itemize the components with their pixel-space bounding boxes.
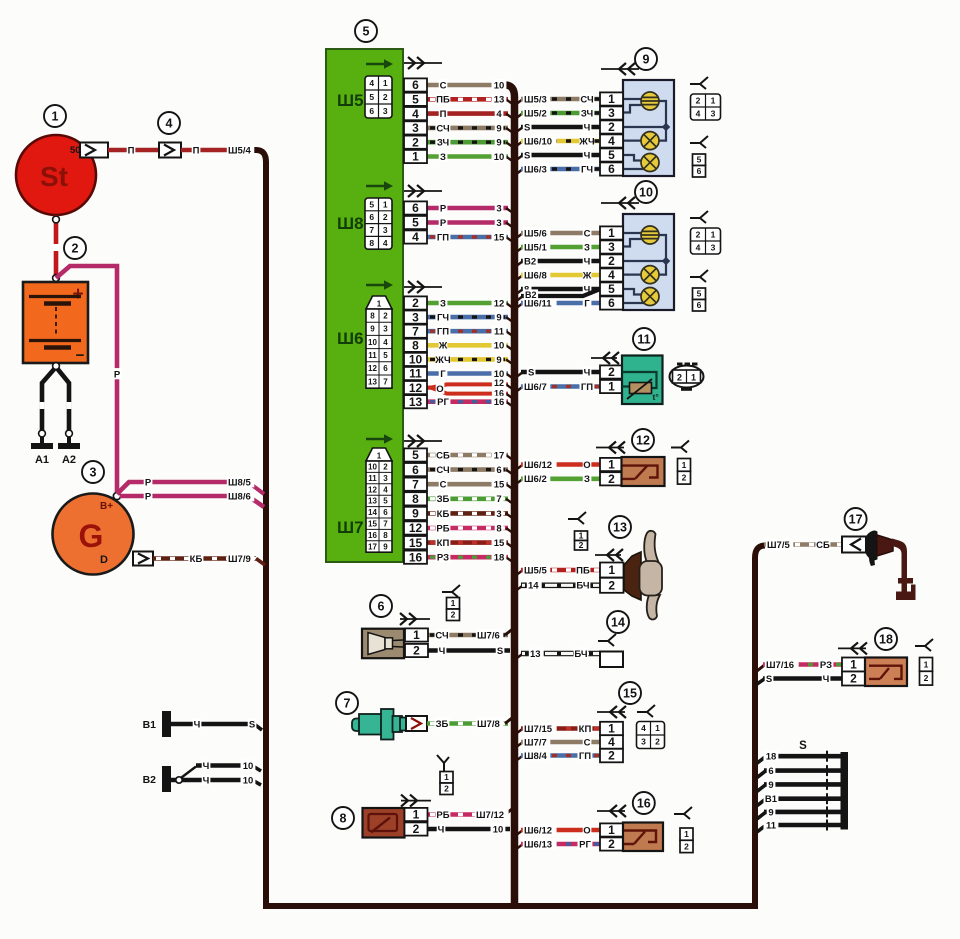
svg-text:3: 3: [496, 203, 501, 214]
svg-text:4: 4: [696, 109, 701, 119]
pin 9/1: [600, 92, 623, 106]
svg-text:1: 1: [691, 373, 696, 383]
svg-text:8: 8: [496, 523, 501, 534]
svg-text:С: С: [440, 480, 447, 491]
wire РБ 8 pin 1 to trunk Ш7/12: [427, 809, 512, 821]
svg-text:10: 10: [494, 341, 505, 352]
svg-text:1: 1: [451, 598, 456, 608]
svg-text:2: 2: [696, 96, 701, 106]
pin Ш6/12: [404, 381, 427, 395]
svg-text:Ш7/8: Ш7/8: [477, 719, 500, 730]
label 6 circled: [370, 595, 392, 617]
component 6 speaker body: [362, 629, 404, 659]
wire С Ш5/6 from trunk to 10 pin 1: [515, 227, 600, 239]
arrow 12 harness direction: [596, 442, 625, 454]
svg-text:П: П: [440, 109, 447, 120]
svg-text:4: 4: [608, 134, 615, 148]
pin layout Ш8: [365, 198, 392, 249]
svg-text:13: 13: [530, 649, 541, 660]
pin 18/2: [842, 672, 865, 686]
svg-text:ЗБ: ЗБ: [437, 494, 450, 505]
svg-text:Р: Р: [440, 218, 447, 229]
svg-text:ГП: ГП: [579, 751, 591, 762]
svg-text:5: 5: [383, 351, 388, 360]
wire Р Ш8 pin 5 to trunk: [427, 217, 513, 229]
svg-text:4: 4: [412, 230, 419, 244]
wire ГП Ш6/7 from trunk to 11 pin 1: [515, 381, 600, 393]
svg-text:С: С: [440, 80, 447, 91]
wire З Ш6 pin 2 to trunk: [427, 297, 513, 309]
ground A2: [58, 443, 80, 466]
label 10 circled: [635, 181, 657, 203]
svg-text:4: 4: [369, 78, 374, 88]
pin 8/2: [405, 822, 428, 836]
svg-text:15: 15: [368, 520, 377, 529]
svg-text:14: 14: [611, 616, 625, 630]
svg-text:1: 1: [444, 772, 449, 782]
svg-text:10: 10: [409, 353, 423, 367]
svg-text:6: 6: [697, 300, 702, 310]
fork 14: [598, 634, 616, 646]
wire Ч 6 pin 2 to trunk S: [427, 645, 510, 657]
wire СБ Ш7 pin 5 to trunk: [427, 449, 513, 461]
label Ш5: [337, 91, 364, 110]
pin Ш8/5: [404, 216, 427, 230]
svg-text:2: 2: [444, 784, 449, 794]
pin 9/5: [600, 148, 623, 162]
svg-text:t°: t°: [653, 392, 660, 402]
wire О Ш6/12 from trunk to 12 pin 1: [515, 459, 600, 471]
wire СЧ Ш5 pin 3 to trunk: [427, 122, 513, 134]
pin Ш5/2: [404, 135, 427, 149]
svg-text:Ш6: Ш6: [337, 329, 364, 348]
svg-text:1: 1: [608, 458, 615, 472]
pin 12/2: [600, 472, 623, 486]
svg-text:КБ: КБ: [190, 554, 203, 565]
svg-text:12: 12: [409, 521, 423, 535]
arrow Ш7 orientation (green): [366, 434, 393, 444]
pin Ш7/8: [404, 492, 427, 506]
svg-text:16: 16: [637, 797, 651, 811]
component 17 horn: [866, 531, 916, 600]
label 11 circled: [633, 328, 655, 350]
svg-text:Ч: Ч: [584, 367, 591, 378]
svg-text:Ш6/7: Ш6/7: [524, 382, 547, 393]
svg-text:Р: Р: [145, 477, 152, 488]
wire ЗЧ Ш5 pin 2 to trunk: [427, 136, 513, 148]
wire З Ш6/2 from trunk to 12 pin 2: [515, 473, 600, 485]
arrow Ш7 harness direction: [404, 435, 442, 447]
svg-text:1: 1: [413, 808, 420, 822]
svg-text:8: 8: [370, 311, 375, 320]
svg-text:12: 12: [494, 378, 504, 388]
arrow Ш6 orientation (green): [366, 280, 393, 290]
lamp 10 tail/stop two-filament: [641, 226, 659, 244]
svg-text:1: 1: [608, 823, 615, 837]
pin layout Ш6: [366, 296, 392, 388]
pin 13/2: [600, 578, 624, 593]
resistor t inside sensor 11: [627, 379, 659, 402]
svg-text:S: S: [249, 719, 255, 730]
fork 15: [637, 705, 655, 717]
wire З Ш5/1 from trunk to 10 pin 3: [515, 241, 600, 253]
svg-text:S: S: [497, 646, 503, 657]
wire ЖЧ Ш6 pin 10 to trunk: [427, 354, 513, 366]
pin layout 12: [678, 459, 691, 485]
wire ПБ Ш5/5 from trunk to 13 pin 1: [515, 564, 600, 576]
wire Ч S from trunk to 11 pin 2: [515, 366, 600, 378]
svg-text:Ш6/3: Ш6/3: [524, 164, 547, 175]
svg-text:2: 2: [383, 463, 388, 472]
arrow Ш6 harness direction: [404, 281, 442, 293]
svg-text:В1: В1: [765, 794, 778, 805]
svg-text:15: 15: [494, 232, 505, 243]
svg-text:П: П: [193, 145, 200, 156]
svg-text:4: 4: [696, 243, 701, 253]
label 14 circled: [607, 611, 629, 633]
svg-text:15: 15: [409, 536, 423, 550]
svg-text:7: 7: [412, 477, 419, 491]
svg-text:2: 2: [696, 230, 701, 240]
pin layout 8: [440, 772, 453, 795]
svg-text:12: 12: [494, 298, 505, 309]
svg-text:6: 6: [768, 766, 773, 777]
svg-text:18: 18: [494, 553, 505, 564]
svg-text:13: 13: [409, 395, 423, 409]
wire О Ш6/12 from trunk to 16 pin 1: [515, 824, 600, 836]
svg-text:2: 2: [383, 212, 388, 222]
svg-text:О: О: [583, 825, 590, 836]
svg-text:3: 3: [496, 509, 501, 520]
svg-text:Ш7/9: Ш7/9: [228, 554, 251, 565]
svg-text:11: 11: [494, 327, 505, 338]
wire КП Ш7 pin 15 to trunk: [427, 537, 513, 549]
wire СЧ Ш5/3 from trunk to 9 pin 1: [515, 93, 600, 105]
component 16 switch body: [623, 823, 663, 852]
svg-text:7: 7: [383, 520, 388, 529]
svg-text:9: 9: [496, 138, 501, 149]
svg-text:Ч: Ч: [584, 122, 591, 133]
switch arm on В2: [176, 767, 196, 784]
svg-text:10: 10: [243, 761, 254, 772]
component 5 mounting block (green): [326, 49, 403, 562]
svg-text:3: 3: [412, 121, 419, 135]
component 18 switch body: [865, 658, 907, 687]
svg-text:3: 3: [90, 466, 97, 480]
svg-text:5: 5: [383, 497, 388, 506]
svg-text:Ш7: Ш7: [337, 518, 364, 537]
pin Ш8/4: [404, 230, 427, 244]
pin 15/4: [600, 735, 623, 749]
wire right harness vertical: [755, 546, 765, 907]
svg-text:3: 3: [711, 243, 716, 253]
svg-text:1: 1: [52, 110, 59, 124]
svg-text:2: 2: [413, 822, 420, 836]
svg-text:Ш7/16: Ш7/16: [766, 660, 794, 671]
label 4 circled: [158, 112, 180, 134]
svg-text:Ш7/7: Ш7/7: [524, 737, 547, 748]
svg-text:4: 4: [641, 723, 646, 733]
svg-text:2: 2: [608, 254, 615, 268]
svg-text:8: 8: [412, 492, 419, 506]
svg-text:Ж: Ж: [438, 341, 448, 352]
wire main harness left vertical: [253, 150, 266, 906]
pin layout 18: [920, 658, 933, 686]
wire ГП Ш6 pin 7 to trunk: [427, 325, 513, 337]
wire Ж Ш6 pin 8 to trunk: [427, 339, 513, 351]
wire Ч В2 merge into 10 pin 5: [515, 289, 599, 302]
fork 9 lower: [690, 136, 708, 148]
wire ЗБ Ш7 pin 8 to trunk: [427, 493, 513, 505]
pin layout 13: [575, 531, 588, 551]
svg-text:6: 6: [383, 364, 388, 373]
svg-text:Ш6/12: Ш6/12: [524, 825, 552, 836]
connector at generator terminal D: [133, 552, 153, 566]
svg-text:Ч: Ч: [203, 761, 210, 772]
wire main trunk central vertical: [505, 85, 515, 906]
wire ЗЧ Ш5/2 from trunk to 9 pin 3: [515, 107, 600, 119]
pin 11/1: [600, 380, 623, 394]
pin 10/2: [600, 254, 623, 268]
label 9 circled: [635, 48, 657, 70]
svg-text:S: S: [524, 122, 530, 133]
fork 16: [674, 807, 692, 819]
svg-text:СБ: СБ: [816, 540, 830, 551]
svg-text:З: З: [440, 298, 446, 309]
wire П Ш5 pin 4 to trunk: [427, 108, 513, 120]
svg-text:6: 6: [496, 465, 501, 476]
pin 10/4: [600, 268, 623, 282]
svg-text:Ш6/10: Ш6/10: [524, 136, 552, 147]
wire starter to battery: [53, 215, 60, 282]
svg-text:З: З: [440, 152, 446, 163]
svg-text:ГЧ: ГЧ: [437, 313, 449, 324]
wire ЖЧ Ш6/10 from trunk to 9 pin 4: [515, 135, 600, 147]
terminal В1: [143, 711, 171, 737]
wire Ч В2 from trunk to 10 pin 2: [515, 255, 600, 267]
arrow Ш5 harness direction: [404, 57, 442, 69]
svg-text:Ш5/1: Ш5/1: [524, 242, 547, 253]
connector pad 11 oval: [670, 363, 704, 391]
svg-text:Ш7/6: Ш7/6: [477, 630, 500, 641]
svg-text:О: О: [583, 460, 590, 471]
pin 6/2: [405, 644, 428, 658]
svg-text:О: О: [436, 384, 443, 395]
svg-text:9: 9: [768, 807, 773, 818]
svg-text:СЧ: СЧ: [435, 630, 449, 641]
wire Ч 8 pin 2 to trunk 10: [427, 823, 510, 835]
wire С Ш5 pin 6 to trunk: [427, 79, 506, 91]
svg-text:3: 3: [608, 240, 615, 254]
pin 10/5: [600, 282, 623, 296]
svg-text:Ш8: Ш8: [337, 214, 364, 233]
svg-text:Р: Р: [145, 491, 152, 502]
wire Ж Ш6/8 from trunk to 10 pin 4: [515, 269, 600, 281]
wire КБ Ш7 pin 9 to trunk: [427, 508, 513, 520]
svg-text:ЖЧ: ЖЧ: [434, 355, 451, 366]
pin Ш7/12: [404, 521, 427, 535]
svg-text:9: 9: [496, 355, 501, 366]
svg-text:5: 5: [363, 25, 370, 39]
wire Р Ш8 pin 6 to trunk: [427, 202, 513, 214]
pin Ш7/7: [404, 477, 427, 491]
fork 6: [442, 585, 460, 597]
arrow 15 harness direction: [597, 706, 626, 718]
svg-text:1: 1: [655, 723, 660, 733]
svg-text:2: 2: [608, 365, 615, 379]
svg-text:ГП: ГП: [581, 382, 593, 393]
pin Ш5/4: [404, 107, 427, 121]
svg-text:Ш7/15: Ш7/15: [524, 724, 553, 735]
ground A1: [31, 443, 53, 466]
wire С Ш7 pin 7 to trunk: [427, 478, 513, 490]
wire РЗ Ш7 pin 16 to trunk: [427, 551, 513, 563]
svg-text:РЗ: РЗ: [437, 553, 449, 564]
svg-text:РБ: РБ: [436, 810, 449, 821]
svg-text:6: 6: [608, 296, 615, 310]
arrow Ш8 orientation (green): [366, 181, 393, 191]
pin Ш7/16: [404, 550, 427, 564]
svg-text:Г: Г: [584, 298, 590, 309]
svg-text:+: +: [72, 284, 83, 305]
wire Ч S-bus 18: [757, 750, 843, 763]
svg-text:Ч: Ч: [439, 646, 446, 657]
fork 13: [568, 512, 586, 524]
svg-text:РЗ: РЗ: [820, 660, 832, 671]
svg-text:10: 10: [639, 186, 653, 200]
pin Ш6/2: [404, 296, 427, 310]
svg-text:18: 18: [879, 633, 893, 647]
wire РЗ Ш7/16 from right harness to 18 pin 1: [757, 659, 842, 671]
svg-text:2: 2: [677, 373, 682, 383]
svg-text:1: 1: [383, 78, 388, 88]
svg-text:S: S: [766, 674, 772, 685]
svg-text:St: St: [40, 161, 68, 192]
svg-text:6: 6: [383, 508, 388, 517]
wire О Ш6 pin 12 split to trunk (12 and 16): [427, 377, 513, 399]
svg-text:14: 14: [528, 581, 539, 592]
pin Ш6/7: [404, 324, 427, 338]
svg-text:11: 11: [637, 333, 650, 347]
component 4 connector: [159, 143, 181, 158]
svg-text:7: 7: [369, 225, 374, 235]
svg-text:10: 10: [368, 463, 377, 472]
svg-text:3: 3: [383, 106, 388, 116]
svg-text:2: 2: [850, 672, 857, 686]
svg-text:8: 8: [412, 339, 419, 353]
pin layout Ш5: [365, 76, 392, 118]
wire battery negative fork to grounds A1 A2: [39, 363, 73, 443]
node S bus bar: [841, 752, 849, 830]
svg-text:СЧ: СЧ: [436, 123, 450, 134]
wire Ч S from right harness to 18 pin 2: [757, 673, 842, 685]
svg-text:ЖЧ: ЖЧ: [578, 136, 595, 147]
svg-text:1: 1: [377, 300, 382, 309]
svg-text:2: 2: [383, 311, 388, 320]
svg-text:З: З: [584, 474, 590, 485]
svg-text:4: 4: [496, 109, 502, 120]
svg-text:Ш5/6: Ш5/6: [524, 228, 547, 239]
wire РГ Ш6 pin 13 to trunk: [427, 396, 513, 408]
wire КБ generator D to Ш7/9: [153, 553, 265, 565]
svg-text:2: 2: [412, 135, 419, 149]
svg-text:6: 6: [369, 212, 374, 222]
label 15 circled: [619, 682, 641, 704]
component 9 rear lamp housing: [623, 80, 674, 176]
svg-text:9: 9: [768, 780, 773, 791]
svg-text:6: 6: [412, 463, 419, 477]
label 17 circled: [845, 508, 867, 530]
fork 12: [671, 441, 689, 453]
label 18 circled: [875, 628, 897, 650]
wire РБ Ш7 pin 12 to trunk: [427, 522, 513, 534]
svg-text:4: 4: [383, 238, 388, 248]
svg-text:13: 13: [368, 377, 377, 386]
svg-text:1: 1: [682, 460, 687, 470]
svg-text:6: 6: [412, 78, 419, 92]
pin 12/1: [600, 458, 623, 472]
component 3 generator G: [53, 494, 134, 575]
wire СЧ 6 pin 1 to trunk Ш7/6: [427, 629, 512, 641]
pin layout 16: [680, 828, 693, 853]
wire П starter to connector 4: [108, 144, 159, 156]
pin layout 15: [637, 722, 665, 749]
pin Ш6/8: [404, 339, 427, 353]
svg-text:1: 1: [711, 96, 716, 106]
svg-text:КП: КП: [579, 724, 592, 735]
wire П connector 4 to harness label Ш5/4: [181, 144, 254, 156]
label S bus: [799, 740, 807, 752]
svg-text:СЧ: СЧ: [580, 94, 594, 105]
svg-text:16: 16: [368, 531, 377, 540]
pin 11/2: [600, 365, 623, 379]
wire main harness bottom horizontal: [263, 903, 758, 909]
pin layout 9 lower: [693, 154, 706, 177]
svg-text:Ш6/12: Ш6/12: [524, 460, 552, 471]
wire Ч S-bus 6: [757, 765, 843, 778]
svg-text:12: 12: [409, 381, 423, 395]
pin 15/2: [600, 749, 623, 763]
svg-text:1: 1: [711, 230, 716, 240]
svg-text:3: 3: [383, 225, 388, 235]
label 1 circled: [44, 105, 66, 127]
component 10 rear lamp housing: [623, 214, 674, 310]
pin 9/2: [600, 120, 623, 134]
svg-text:13: 13: [494, 95, 505, 106]
wire Ч S-bus 9: [757, 806, 843, 819]
svg-text:С: С: [584, 228, 591, 239]
svg-text:8: 8: [383, 531, 388, 540]
svg-text:10: 10: [494, 152, 505, 163]
pin Ш7/6: [404, 463, 427, 477]
pin 9/4: [600, 134, 623, 148]
svg-text:РГ: РГ: [579, 839, 591, 850]
svg-text:Ш5/3: Ш5/3: [524, 94, 547, 105]
label Ш8: [337, 214, 364, 233]
svg-text:Ш5/4: Ш5/4: [228, 145, 251, 156]
svg-text:Ч: Ч: [823, 674, 830, 685]
svg-text:3: 3: [608, 106, 615, 120]
svg-text:1: 1: [412, 150, 419, 164]
svg-text:12: 12: [368, 364, 377, 373]
svg-text:9: 9: [383, 542, 388, 551]
fork 10 upper: [690, 211, 708, 223]
svg-text:Ч: Ч: [584, 256, 591, 267]
svg-text:5: 5: [369, 92, 374, 102]
svg-text:4: 4: [412, 107, 419, 121]
wire Г Ш6 pin 11 to trunk: [427, 368, 513, 380]
svg-text:Г: Г: [440, 369, 446, 380]
